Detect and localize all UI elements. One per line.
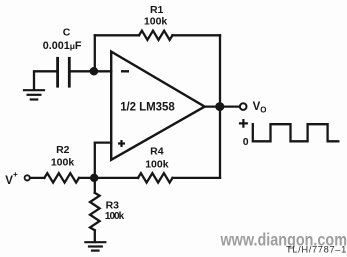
plus sign (non-inverting input)	[118, 140, 125, 147]
wire plus input riser	[95, 143, 111, 178]
wire op-amp output	[205, 105, 239, 107]
wire capacitor to inverting node	[71, 70, 94, 72]
terminal V+ (open circle)	[25, 175, 30, 180]
resistor R3	[90, 193, 100, 231]
svg-text:0: 0	[243, 136, 249, 148]
wire top feedback left segment	[95, 34, 139, 36]
wire R2 to junction	[79, 177, 138, 179]
node bottom junction	[90, 174, 99, 183]
svg-text:TL/H/7787–1: TL/H/7787–1	[286, 245, 347, 255]
wire junction to R3	[94, 178, 96, 193]
svg-text:100k: 100k	[51, 157, 75, 169]
plus sign (waveform level)	[239, 119, 248, 128]
svg-text:1/2 LM358: 1/2 LM358	[120, 101, 175, 113]
wire ground to capacitor	[34, 71, 56, 90]
wire right feedback riser	[219, 35, 221, 178]
wire R3 to ground	[94, 230, 96, 242]
svg-text:C: C	[63, 27, 71, 39]
wire top feedback right segment	[173, 34, 221, 36]
svg-text:100k: 100k	[145, 159, 169, 171]
node inverting input junction	[90, 67, 99, 76]
op-amp U1 (1/2 LM358)	[111, 52, 205, 160]
resistor R1	[139, 31, 173, 40]
capacitor C	[58, 57, 70, 88]
wire V+ terminal to R2	[30, 177, 44, 179]
svg-text:0.001μF: 0.001μF	[43, 40, 82, 52]
svg-text:R3: R3	[106, 200, 120, 212]
svg-text:R1: R1	[150, 4, 164, 16]
wire to op-amp minus input	[94, 70, 111, 72]
node output junction	[215, 102, 224, 111]
square wave output symbol	[253, 124, 338, 141]
ground (bottom, at R3)	[84, 242, 106, 250]
wire left riser to inverting input node	[94, 35, 96, 71]
ground (left, at capacitor)	[23, 90, 45, 99]
wire R4 to right riser	[173, 177, 221, 179]
svg-text:100k: 100k	[105, 211, 125, 222]
svg-text:100k: 100k	[144, 16, 168, 28]
resistor R2	[44, 173, 79, 182]
minus sign (inverting input)	[121, 70, 129, 72]
terminal Vo (open circle)	[240, 103, 247, 110]
svg-text:R2: R2	[56, 144, 70, 156]
svg-text:R4: R4	[150, 146, 164, 158]
resistor R4	[138, 173, 173, 182]
